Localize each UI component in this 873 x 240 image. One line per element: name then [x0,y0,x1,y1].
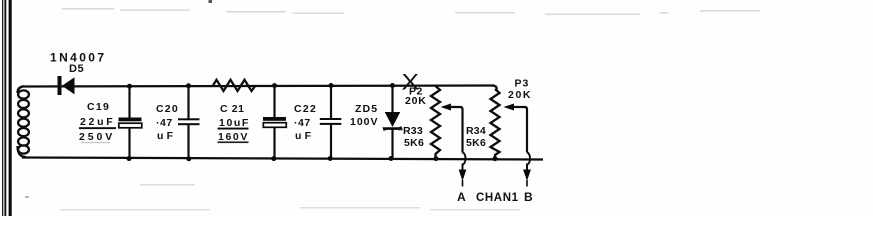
corner top rail into P3 [492,86,497,91]
wire A crossover jog [463,153,466,171]
svg-text:5K6: 5K6 [466,137,486,149]
node top C20 [186,83,191,88]
capacitor C19 [119,86,142,158]
svg-text:C22: C22 [294,103,317,115]
node bottom C20 [186,156,191,161]
capacitor C21 [263,86,286,159]
svg-text:·47: ·47 [294,117,311,129]
wire B crossover jog [527,153,530,171]
svg-text:10uF: 10uF [219,117,250,129]
svg-text:A: A [457,190,466,204]
svg-text:100V: 100V [350,116,379,128]
node bottom R34 [493,156,498,161]
svg-text:160V: 160V [218,131,249,143]
zener diode ZD5 [384,86,401,159]
tick before R33 [398,128,403,130]
scan speck bottom left [25,196,29,198]
wiper arrow P3 [504,104,528,153]
potentiometer P3 + resistor R34 chain [491,89,500,159]
page edge binding line thin [2,0,3,216]
page edge binding line middle [4,0,6,216]
node bottom ZD5 [389,156,394,161]
inductor L1 winding loops [18,86,29,157]
faint scan smudge bottom [60,184,520,210]
svg-text:uF: uF [295,130,314,142]
node top C22 [329,83,334,88]
node bottom C22 [328,156,333,161]
faint scan smudge top left [62,8,760,15]
page edge binding line thick [9,0,12,216]
resistor series on top rail [213,80,256,91]
svg-text:P3: P3 [515,78,530,90]
svg-text:·47: ·47 [156,117,173,129]
svg-text:C 21: C 21 [220,103,245,115]
svg-text:C19: C19 [87,101,110,113]
bottom rail wire [22,158,543,160]
svg-text:ZD5: ZD5 [355,103,378,115]
node bottom C21 [271,156,276,161]
svg-text:C20: C20 [156,103,179,115]
capacitor C22 [320,86,342,159]
svg-text:250V: 250V [79,131,115,143]
svg-text:R33: R33 [403,125,423,137]
svg-text:D5: D5 [69,63,84,75]
svg-text:uF: uF [157,130,176,142]
svg-text:5K6: 5K6 [404,137,424,149]
node bottom R33 [434,156,439,161]
top rail wire [24,86,494,87]
node top ZD5 [390,83,395,88]
svg-text:22uF: 22uF [80,116,115,128]
node top C19 [127,84,132,89]
node top C21 [272,83,277,88]
potentiometer P2 + resistor R33 chain [431,86,440,158]
svg-text:R34: R34 [466,125,486,137]
node bottom C19 [127,156,132,161]
svg-text:20K: 20K [508,89,532,101]
scan speck top middle [209,0,213,3]
wiper arrow P2 [441,104,463,153]
terminal arrow B [523,170,531,187]
capacitor C20 [178,86,200,159]
svg-text:20K: 20K [405,95,427,107]
svg-text:CHAN1: CHAN1 [476,192,519,204]
terminal arrow A [459,170,467,187]
diode D5 1N4007 [58,76,75,95]
svg-text:B: B [524,190,533,204]
